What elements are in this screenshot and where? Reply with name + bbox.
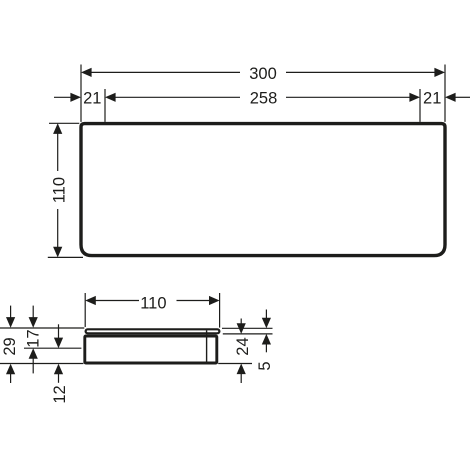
arrowhead 17 top: [29, 317, 38, 328]
svg-text:29: 29: [1, 337, 19, 355]
arrowhead 110b left: [85, 296, 96, 305]
dimension text 21 left: [83, 90, 101, 108]
svg-text:110: 110: [51, 177, 69, 203]
side view shelf plate: [86, 329, 220, 333]
svg-text:24: 24: [234, 337, 252, 355]
arrowhead 5 bottom: [262, 334, 271, 345]
arrowhead 24 top: [237, 323, 246, 334]
dimension tails 29: [10, 306, 12, 319]
extension line side-view left x85: [84, 293, 86, 327]
front view shelf outline: [81, 124, 445, 256]
extension line right mid y333.9: [223, 333, 273, 335]
dimension text 110 left rotated: [51, 177, 69, 203]
arrowhead 21 left: [70, 93, 81, 102]
extension line x420: [419, 89, 421, 122]
arrowhead 300 left: [81, 68, 92, 77]
arrowhead 17 bottom: [29, 348, 38, 359]
svg-text:110: 110: [140, 294, 166, 312]
arrowhead 29 bottom: [6, 364, 15, 375]
dimension text 300: [249, 65, 277, 83]
dimension line 110 vertical: [57, 132, 59, 171]
extension line top of 110: [49, 122, 79, 124]
dimension line 110 bottom figure: [94, 300, 140, 302]
dimension text 24 rotated: [234, 337, 252, 355]
dimension line 258: [113, 96, 240, 98]
arrowhead 110 top: [53, 123, 62, 134]
dimension tails 12: [58, 324, 60, 339]
dimension text 12 rotated: [51, 385, 69, 403]
arrowhead 12 top: [54, 338, 63, 349]
side view body: [85, 336, 217, 363]
arrowhead 21 right: [445, 93, 456, 102]
extension line left bottom y363.5: [0, 363, 83, 365]
extension line bottom of 110: [48, 256, 83, 258]
arrowhead 300 right: [434, 68, 445, 77]
svg-text:17: 17: [25, 329, 43, 347]
arrowhead 258 right: [409, 93, 420, 102]
svg-text:258: 258: [250, 90, 278, 108]
dimension line 300: [89, 71, 240, 73]
dimension text 110 bottom figure: [140, 294, 166, 312]
arrowhead 5 top: [262, 318, 271, 329]
arrowhead 24 bottom: [237, 364, 246, 375]
dimension text 17 rotated: [25, 329, 43, 347]
svg-text:21: 21: [423, 90, 441, 108]
dimension tail left 21: [54, 96, 72, 98]
dimension tail right 21: [454, 96, 470, 98]
arrowhead 110 bottom: [53, 247, 62, 258]
dimension text 5 rotated: [256, 361, 274, 370]
extension line right top y328.3: [222, 327, 273, 329]
arrowhead 29 top: [6, 317, 15, 328]
dimension tails 17: [32, 306, 34, 319]
arrowhead 258 left: [105, 93, 116, 102]
extension line x105: [104, 89, 106, 122]
dimension text 29 rotated: [1, 337, 19, 355]
extension line side-view right x219.6: [219, 293, 221, 328]
arrowhead 12 bottom: [54, 364, 63, 375]
svg-text:300: 300: [249, 65, 277, 83]
extension line right x445: [444, 65, 446, 122]
dimension text 258: [250, 90, 278, 108]
extension line left top y328: [0, 327, 84, 329]
arrowhead 110b right: [209, 296, 220, 305]
svg-text:12: 12: [51, 385, 69, 403]
svg-text:21: 21: [83, 90, 101, 108]
dimension text 21 right: [423, 90, 441, 108]
dimension tails 24: [240, 319, 242, 325]
svg-text:5: 5: [256, 361, 274, 370]
side view inner wall line: [206, 330, 208, 361]
dimension tails 5: [265, 310, 267, 320]
extension line left x81: [80, 65, 82, 122]
extension line right bottom y363.5: [218, 363, 252, 365]
extension line left mid y348.2: [24, 347, 81, 349]
